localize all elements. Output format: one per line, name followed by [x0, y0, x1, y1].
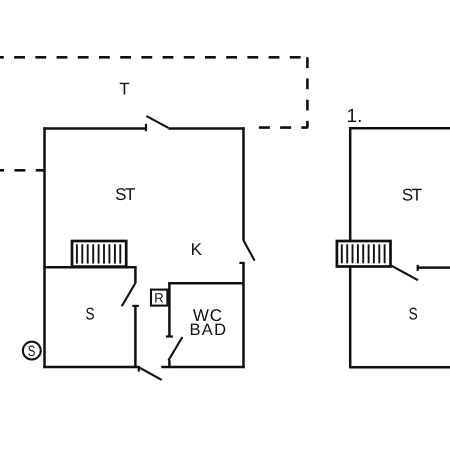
first floor wall left: [349, 127, 352, 368]
exterior wall left: [43, 127, 46, 368]
exterior wall top left of terrace door: [43, 127, 146, 130]
S room door leaf: [122, 283, 136, 306]
svg-text:S: S: [28, 343, 36, 360]
svg-text:1.: 1.: [347, 106, 363, 127]
svg-text:S: S: [85, 305, 94, 324]
terrace dashed edge top: [0, 56, 307, 59]
svg-text:ST: ST: [402, 185, 422, 204]
svg-text:K: K: [191, 240, 203, 259]
first floor wall bottom: [349, 366, 450, 369]
first floor wall top: [349, 127, 450, 130]
exterior wall bottom left of entry door: [43, 366, 139, 369]
exterior wall top right of terrace door: [168, 127, 244, 130]
WC left wall upper: [168, 282, 171, 336]
svg-text:S: S: [409, 305, 418, 324]
terrace door leaf: [146, 116, 168, 128]
svg-text:BAD: BAD: [189, 321, 227, 339]
side door leaf: [243, 240, 254, 260]
svg-text:ST: ST: [115, 185, 135, 204]
stairs ground floor: [72, 241, 126, 267]
WC top wall: [168, 282, 244, 285]
S room door jamb tick: [132, 305, 139, 307]
exterior wall bottom right of entry door: [161, 366, 244, 369]
terrace dashed edge left: [0, 169, 44, 172]
terrace dashed edge bottom: [259, 126, 308, 129]
first floor interior wall: [418, 266, 450, 269]
interior wall S room lower: [134, 306, 137, 368]
interior wall stub above S room door: [134, 266, 137, 283]
stairs first floor: [337, 241, 391, 267]
first floor door leaf: [391, 266, 418, 281]
entry door jamb tick: [138, 366, 140, 372]
label S in circle: [23, 342, 41, 361]
exterior wall right upper: [242, 127, 245, 240]
svg-text:T: T: [119, 80, 129, 99]
WC door leaf: [168, 337, 182, 360]
first floor door jamb tick: [417, 265, 419, 271]
terrace dashed edge right: [306, 57, 309, 128]
label R in box: [151, 290, 167, 306]
exterior wall right lower: [242, 263, 245, 368]
side door jamb tick: [239, 262, 244, 264]
entry door leaf: [139, 367, 162, 380]
terrace door jamb tick: [145, 124, 147, 131]
WC left wall stub: [168, 360, 171, 368]
svg-text:R: R: [154, 291, 164, 306]
WC door jamb tick: [166, 335, 173, 337]
interior wall below stairs: [43, 266, 136, 269]
